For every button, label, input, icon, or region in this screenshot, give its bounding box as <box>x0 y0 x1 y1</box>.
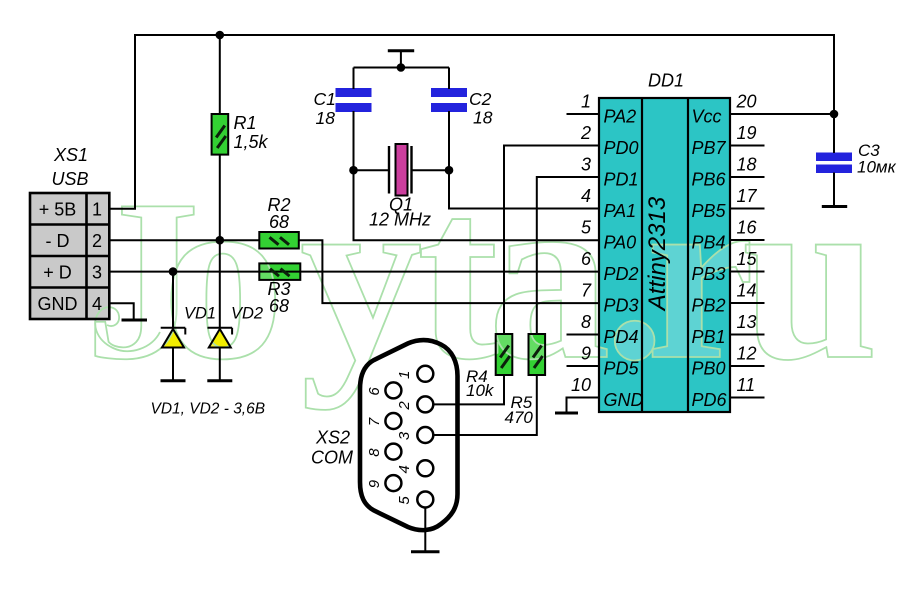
svg-text:12 MHz: 12 MHz <box>369 210 431 230</box>
wire: +D line from XS1 through R3 to PD2 <box>109 271 599 273</box>
svg-text:PB3: PB3 <box>692 264 726 284</box>
wire: crystal left lead <box>354 169 390 171</box>
wire: C1 vertical top <box>353 68 355 90</box>
svg-text:3: 3 <box>581 155 591 175</box>
wire: C3 to ground <box>833 173 835 207</box>
svg-text:PD6: PD6 <box>692 390 728 410</box>
junction: R1 / -D node <box>216 236 225 245</box>
wire: left vertical from rail to XS1 pin1 <box>134 34 136 209</box>
pin 9 (PD5) <box>567 365 600 367</box>
wire: XS1 pin1 to vertical <box>109 208 136 210</box>
wire: crystal right node down to PA1 wire <box>449 170 599 208</box>
wire: C2 to crystal node <box>448 111 450 170</box>
XS2 pin 5 <box>417 492 433 508</box>
svg-text:R1: R1 <box>234 113 257 133</box>
XS2 pin 6 <box>385 382 401 398</box>
wire: crystal right lead <box>412 169 450 171</box>
svg-text:10k: 10k <box>466 381 495 400</box>
svg-text:7: 7 <box>366 417 383 426</box>
resistor R2 fill <box>259 232 299 249</box>
resistor R4 <box>496 334 513 375</box>
svg-text:10мк: 10мк <box>857 158 897 177</box>
wire: PD0 to R4 <box>504 146 599 335</box>
svg-text:COM: COM <box>311 448 353 468</box>
junction: rail / R1 node <box>216 31 225 40</box>
ground: VD2 <box>207 379 232 382</box>
svg-text:9: 9 <box>366 479 383 488</box>
pin 13 (PB1) <box>730 334 765 336</box>
pin 8 (PD4) <box>567 334 600 336</box>
wire: C1 to crystal node <box>353 111 355 170</box>
svg-text:PA2: PA2 <box>604 107 637 127</box>
connector XS2 DB9 body fill <box>360 340 458 530</box>
connector XS1 body fill <box>30 193 109 319</box>
svg-text:4: 4 <box>581 186 591 206</box>
pin 17 (PB5) <box>730 208 765 210</box>
XS2 pin 1 <box>417 366 433 382</box>
svg-text:11: 11 <box>737 375 756 395</box>
wire: C1 top to C2 top <box>354 67 450 69</box>
resistor R3 fill <box>259 263 300 280</box>
wire: rail down to R1 <box>219 35 221 115</box>
wire: XS2 pin5 to ground <box>424 508 426 552</box>
svg-text:VD1: VD1 <box>184 305 216 323</box>
junction: crystal right node <box>445 166 454 175</box>
svg-text:PA0: PA0 <box>604 233 637 253</box>
pin 19 (PB7) <box>730 145 765 147</box>
junction: Vcc / C3 node <box>830 110 839 119</box>
svg-text:2: 2 <box>396 401 413 411</box>
resistor R5 fill <box>529 334 546 375</box>
svg-text:2: 2 <box>580 123 591 143</box>
svg-text:+ D: + D <box>43 262 72 282</box>
junction: crystal ground node <box>397 63 406 72</box>
svg-text:VD1, VD2 - 3,6В: VD1, VD2 - 3,6В <box>151 401 266 418</box>
svg-text:5: 5 <box>581 218 592 238</box>
svg-text:- D: - D <box>46 231 70 251</box>
wire: R5 to XS2 pin3 <box>433 375 537 435</box>
XS2 pin 9 <box>385 475 401 491</box>
svg-text:7: 7 <box>581 281 592 301</box>
capacitor C2 plates <box>431 88 467 97</box>
svg-text:20: 20 <box>736 92 757 112</box>
pin 11 (PD6) <box>730 397 765 399</box>
pin 18 (PB6) <box>730 176 765 178</box>
svg-text:3: 3 <box>92 262 102 282</box>
svg-text:PB7: PB7 <box>692 138 727 158</box>
svg-text:4: 4 <box>396 465 413 473</box>
svg-text:16: 16 <box>737 218 758 238</box>
svg-text:PD4: PD4 <box>604 327 639 347</box>
svg-text:2: 2 <box>92 231 102 251</box>
svg-text:470: 470 <box>505 408 534 427</box>
svg-text:PB6: PB6 <box>692 170 727 190</box>
svg-text:1: 1 <box>396 371 413 379</box>
svg-text:1: 1 <box>581 92 591 112</box>
svg-text:6: 6 <box>366 387 383 396</box>
IC DD1 outline <box>599 98 730 412</box>
svg-text:PB4: PB4 <box>692 233 726 253</box>
junction: VD1 / +D node <box>169 267 178 276</box>
capacitor C1 plates <box>336 88 372 97</box>
zener diode VD1 <box>161 272 186 381</box>
svg-text:PD2: PD2 <box>604 264 639 284</box>
capacitor C3 plates <box>816 153 852 162</box>
svg-text:PD5: PD5 <box>604 359 640 379</box>
svg-text:18: 18 <box>737 155 757 175</box>
svg-text:PB1: PB1 <box>692 327 726 347</box>
svg-text:PB0: PB0 <box>692 359 726 379</box>
resistor R4 fill <box>496 334 513 375</box>
svg-text:Vcc: Vcc <box>692 107 722 127</box>
svg-text:17: 17 <box>737 186 758 206</box>
svg-text:9: 9 <box>581 344 591 364</box>
XS2 pin 8 <box>385 444 401 460</box>
ground: C3 <box>822 205 847 208</box>
svg-text:PD1: PD1 <box>604 170 639 190</box>
svg-text:1,5k: 1,5k <box>234 132 269 152</box>
svg-text:PD3: PD3 <box>604 296 639 316</box>
svg-text:68: 68 <box>269 296 289 316</box>
wire: XS1 pin4 to ground <box>109 303 133 319</box>
svg-text:VD2: VD2 <box>231 305 263 323</box>
svg-text:PD0: PD0 <box>604 138 639 158</box>
pin 12 (PB0) <box>730 365 765 367</box>
wire: +5V top rail <box>135 34 834 36</box>
svg-text:14: 14 <box>737 281 757 301</box>
svg-text:DD1: DD1 <box>648 71 684 91</box>
connector XS1 grid <box>30 193 109 319</box>
pin 16 (PB4) <box>730 239 765 241</box>
svg-text:GND: GND <box>38 294 78 314</box>
crystal Q1 fill <box>396 144 408 196</box>
svg-text:12: 12 <box>737 344 757 364</box>
svg-text:XS2: XS2 <box>315 428 350 448</box>
svg-text:PB5: PB5 <box>692 201 727 221</box>
ground: VD1 <box>161 379 186 382</box>
svg-text:C1: C1 <box>314 89 336 109</box>
pin 15 (PB3) <box>730 271 765 273</box>
pin 20 (Vcc) <box>730 113 834 115</box>
svg-text:PB2: PB2 <box>692 296 726 316</box>
diode VD1 fill <box>162 329 184 348</box>
ground: DD1 GND pin <box>555 412 578 415</box>
ground: XS1 pin4 <box>122 319 148 322</box>
pin 10 (GND) <box>567 398 600 413</box>
ground: XS2 pin5 <box>411 550 440 553</box>
wire: crystal left node down to PA0 wire <box>354 170 600 240</box>
svg-text:6: 6 <box>581 249 592 269</box>
wire: R2 out to bend <box>299 240 599 303</box>
diode VD2 fill <box>209 329 231 348</box>
svg-text:1: 1 <box>92 199 102 219</box>
svg-text:Attiny2313: Attiny2313 <box>644 196 671 312</box>
ground: crystal top tee <box>388 49 414 52</box>
svg-text:10: 10 <box>571 375 591 395</box>
resistor R2 <box>259 232 299 249</box>
svg-text:4: 4 <box>92 294 102 314</box>
XS2 pin 2 <box>417 396 433 412</box>
wire: R1 to -D line <box>219 154 221 240</box>
svg-text:5: 5 <box>396 496 413 505</box>
pin 14 (PB2) <box>730 302 765 304</box>
wire: R4 to XS2 pin2 <box>433 375 504 404</box>
resistor R3 <box>259 263 300 280</box>
XS2 pin 7 <box>385 413 401 429</box>
svg-text:19: 19 <box>737 123 757 143</box>
svg-text:oyta.ru: oyta.ru <box>162 139 878 410</box>
wire: rail down to C3 <box>833 34 835 153</box>
svg-text:+ 5В: + 5В <box>39 199 77 219</box>
zener diode VD2 <box>208 328 233 381</box>
svg-text:68: 68 <box>269 212 289 232</box>
svg-text:XS1: XS1 <box>53 145 88 165</box>
watermark Joyta.ru <box>85 139 878 410</box>
svg-text:13: 13 <box>737 312 757 332</box>
svg-text:C2: C2 <box>469 89 492 109</box>
svg-text:PA1: PA1 <box>604 201 637 221</box>
resistor R1 fill <box>212 114 229 155</box>
IC DD1 body fill <box>599 98 730 412</box>
resistor R5 <box>529 334 546 375</box>
XS2 pin 4 <box>417 460 433 476</box>
svg-text:3: 3 <box>396 431 413 440</box>
connector XS2 DB9 outline <box>360 340 458 530</box>
pin 1 (PA2) <box>567 113 600 115</box>
wire: C2 vertical top <box>448 68 450 90</box>
svg-text:15: 15 <box>737 249 758 269</box>
wire: -D line from XS1 to R2 <box>109 239 259 241</box>
svg-text:18: 18 <box>473 108 493 128</box>
junction: crystal left node <box>349 166 358 175</box>
svg-text:8: 8 <box>581 312 591 332</box>
crystal Q1 <box>388 146 390 194</box>
wire: PD1 to R5 <box>537 177 599 334</box>
svg-text:GND: GND <box>604 390 644 410</box>
XS2 pin 3 <box>417 427 433 443</box>
svg-text:8: 8 <box>366 448 383 457</box>
svg-text:18: 18 <box>316 108 336 128</box>
wire: -D node down to VD2 <box>219 240 221 328</box>
svg-text:USB: USB <box>51 169 88 189</box>
resistor R1 <box>212 114 229 155</box>
